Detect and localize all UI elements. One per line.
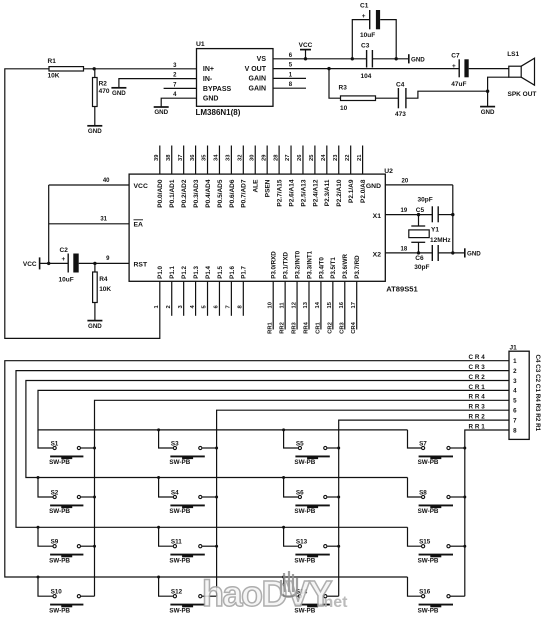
svg-text:32: 32 <box>238 155 244 161</box>
wire U1 pin 4 to ground <box>161 98 196 107</box>
svg-text:P3.4/T0: P3.4/T0 <box>318 257 325 279</box>
switch S9 <box>38 527 53 546</box>
wire U1 pin 2 to ground <box>119 79 197 88</box>
wire C6 to ground <box>438 252 465 254</box>
U2 top pin stub 27 <box>290 146 292 175</box>
junction row 4 drop col 2 <box>157 576 160 579</box>
svg-text:34: 34 <box>214 154 220 161</box>
junction C5 right <box>451 213 454 216</box>
svg-text:8: 8 <box>513 427 517 434</box>
junction column 4 row 3 <box>463 545 466 548</box>
svg-text:19: 19 <box>401 208 408 214</box>
svg-text:C6: C6 <box>415 255 424 262</box>
svg-text:P2.6/A14: P2.6/A14 <box>288 179 295 206</box>
svg-text:S1: S1 <box>51 440 59 447</box>
U2 top pin stub 22 <box>350 146 352 175</box>
U2 bottom pin stub 6 <box>218 281 220 316</box>
svg-text:SW-PB: SW-PB <box>49 508 70 515</box>
U2 top pin stub 26 <box>302 146 304 175</box>
U2 bottom pin stub 3 <box>183 281 185 316</box>
wire C4 to speaker ground <box>406 91 488 98</box>
svg-text:P1.4: P1.4 <box>205 266 212 279</box>
svg-text:RR1: RR1 <box>268 321 274 333</box>
switch S13 <box>284 527 298 546</box>
svg-text:LS1: LS1 <box>507 51 519 58</box>
svg-text:AT89S51: AT89S51 <box>386 285 418 294</box>
resistor R2 <box>94 69 96 78</box>
svg-text:S6: S6 <box>296 489 304 496</box>
svg-text:P0.6/AD6: P0.6/AD6 <box>229 179 236 208</box>
svg-text:CR2: CR2 <box>469 374 487 381</box>
svg-text:P2.2/A10: P2.2/A10 <box>336 179 343 206</box>
svg-text:C4 C3 C2 C1 R4 R3 R2 R1: C4 C3 C2 C1 R4 R3 R2 R1 <box>534 355 541 432</box>
wire R3 to C4 <box>376 97 399 99</box>
svg-text:S7: S7 <box>419 440 427 447</box>
U2 bottom pin stub 10 <box>272 281 274 329</box>
svg-text:4: 4 <box>513 388 517 395</box>
svg-text:GND: GND <box>481 109 495 116</box>
svg-text:11: 11 <box>279 302 285 309</box>
svg-text:S3: S3 <box>171 440 179 447</box>
switch S6 <box>284 478 298 498</box>
switch S8 <box>408 478 422 498</box>
junction row 2 drop col 2 <box>157 476 160 479</box>
svg-text:S12: S12 <box>171 589 183 596</box>
capacitor C4 plates <box>397 88 399 108</box>
junction row 3 drop col 3 <box>282 526 285 529</box>
svg-text:SW-PB: SW-PB <box>49 607 70 614</box>
crystal Y1 <box>418 215 420 226</box>
svg-text:17: 17 <box>351 302 357 308</box>
svg-text:CR1: CR1 <box>315 321 321 333</box>
U2 bottom pin stub 4 <box>195 281 197 316</box>
junction VCC on VS line <box>304 57 307 60</box>
svg-text:SW-PB: SW-PB <box>169 508 190 515</box>
svg-text:RR1: RR1 <box>469 423 487 430</box>
wire C7 to speaker <box>469 68 509 70</box>
svg-text:30pF: 30pF <box>414 264 429 271</box>
svg-text:U1: U1 <box>196 41 205 48</box>
svg-text:GND: GND <box>88 323 102 330</box>
svg-text:P2.3/A11: P2.3/A11 <box>324 179 331 206</box>
junction column 3 row 2 <box>337 496 340 499</box>
junction C1 left leg on VS line <box>351 57 354 60</box>
svg-text:16: 16 <box>339 301 345 308</box>
svg-text:R1: R1 <box>48 58 57 65</box>
U2 bottom pin stub 15 <box>332 281 334 329</box>
svg-text:P3.2/INT0: P3.2/INT0 <box>294 250 301 278</box>
svg-text:RR2: RR2 <box>469 414 487 421</box>
U2 bottom pin stub 17 <box>356 281 358 329</box>
svg-text:EA: EA <box>134 222 144 229</box>
wire C3 to ground <box>372 58 408 60</box>
svg-text:ALE: ALE <box>253 179 260 193</box>
svg-text:PSEN: PSEN <box>265 179 272 197</box>
svg-text:SW-PB: SW-PB <box>418 459 439 466</box>
svg-text:RR4: RR4 <box>469 394 487 401</box>
svg-text:CR3: CR3 <box>339 321 345 333</box>
svg-text:SW-PB: SW-PB <box>418 607 439 614</box>
svg-text:SW-PB: SW-PB <box>418 508 439 515</box>
svg-text:CR4: CR4 <box>351 321 357 333</box>
wire J1 pin 1 to keypad row 4 <box>5 361 509 577</box>
svg-text:RR4: RR4 <box>303 321 309 333</box>
svg-text:20: 20 <box>402 178 409 184</box>
U2 top pin stub 25 <box>314 146 316 175</box>
svg-text:X1: X1 <box>373 213 382 220</box>
svg-text:12: 12 <box>291 302 297 308</box>
svg-text:SW-PB: SW-PB <box>294 459 315 466</box>
junction column 1 row 2 <box>93 496 96 499</box>
svg-text:10: 10 <box>340 105 348 112</box>
svg-text:P0.4/AD4: P0.4/AD4 <box>205 179 212 208</box>
wire U2 pin 19 X1 <box>385 214 432 216</box>
svg-text:C1: C1 <box>360 3 369 10</box>
svg-text:SW-PB: SW-PB <box>169 557 190 564</box>
svg-text:31: 31 <box>100 216 107 222</box>
svg-text:GND: GND <box>154 109 168 116</box>
U2 top pin stub 36 <box>195 146 197 175</box>
U2 bottom pin stub 5 <box>207 281 209 316</box>
U2 bottom pin stub 8 <box>242 281 244 316</box>
svg-text:22: 22 <box>345 155 351 161</box>
switch S2 <box>38 478 53 498</box>
svg-text:6: 6 <box>513 408 517 415</box>
svg-text:P0.0/AD0: P0.0/AD0 <box>157 179 164 208</box>
wire U2 pin 31 EA <box>49 223 129 225</box>
U2 top pin stub 35 <box>207 146 209 175</box>
junction column 3 row 3 <box>337 545 340 548</box>
svg-text:P2.0/A8: P2.0/A8 <box>360 179 367 203</box>
svg-text:P3.0/RXD: P3.0/RXD <box>271 251 278 279</box>
svg-text:IN+: IN+ <box>203 66 214 73</box>
ground at U1 pin 2 <box>111 87 126 89</box>
svg-text:25: 25 <box>309 154 315 161</box>
U2 bottom pin stub 13 <box>308 281 310 329</box>
ground right of C3 <box>408 54 410 63</box>
microcontroller U2 AT89S51 box <box>129 174 385 281</box>
svg-text:U2: U2 <box>384 168 393 175</box>
svg-text:P1.3: P1.3 <box>193 266 200 279</box>
svg-text:C2: C2 <box>60 247 69 254</box>
U2 bottom pin stub 16 <box>344 281 346 329</box>
svg-text:P0.1/AD1: P0.1/AD1 <box>169 179 176 208</box>
svg-text:7: 7 <box>226 305 232 308</box>
svg-text:P1.6: P1.6 <box>229 266 236 279</box>
svg-text:P3.1/TXD: P3.1/TXD <box>283 251 290 278</box>
svg-text:10uF: 10uF <box>59 277 74 284</box>
svg-text:V OUT: V OUT <box>245 66 267 73</box>
switch S5 <box>284 430 298 448</box>
switch S12 <box>159 577 173 596</box>
svg-text:haoDVY: haoDVY <box>202 573 333 614</box>
svg-text:35: 35 <box>202 154 208 161</box>
junction X2/crystal <box>417 251 420 254</box>
svg-text:S11: S11 <box>171 539 182 546</box>
svg-text:R4: R4 <box>99 276 108 283</box>
svg-text:12MHz: 12MHz <box>430 237 451 244</box>
wire U1 pin 8 GAIN stub <box>273 87 306 89</box>
wire U2 pin 18 X2 <box>385 252 432 254</box>
U2 bottom pin stub 11 <box>284 281 286 329</box>
svg-text:VS: VS <box>257 56 267 63</box>
junction column 4 row 2 <box>463 496 466 499</box>
svg-text:S4: S4 <box>171 489 179 496</box>
svg-text:P3.5/T1: P3.5/T1 <box>330 257 337 279</box>
svg-text:10K: 10K <box>48 73 60 80</box>
wire U1 pin 7 BYPASS stub <box>164 87 197 89</box>
junction RST/R4 <box>93 262 96 265</box>
U2 top pin stub 23 <box>338 146 340 175</box>
junction column 2 row 3 <box>215 545 218 548</box>
resistor R1 <box>49 67 84 71</box>
svg-text:+: + <box>62 256 66 263</box>
junction C1 right leg <box>395 57 398 60</box>
svg-text:C4: C4 <box>396 82 405 89</box>
svg-text:P0.2/AD2: P0.2/AD2 <box>181 179 188 208</box>
svg-text:7: 7 <box>513 417 517 424</box>
switch S15 <box>408 527 422 546</box>
wire J1 pin 5 to keypad column 1 <box>95 400 510 596</box>
wire V OUT to R3 <box>329 69 341 99</box>
switch S14 <box>284 577 298 596</box>
svg-text:SW-PB: SW-PB <box>294 508 315 515</box>
svg-text:+: + <box>362 13 366 20</box>
svg-text:2: 2 <box>166 305 172 308</box>
U2 top pin stub 37 <box>183 146 185 175</box>
svg-text:SW-PB: SW-PB <box>294 557 315 564</box>
wire U1 pin 6 VS to C3 <box>273 58 367 60</box>
svg-text:28: 28 <box>273 154 279 161</box>
svg-text:P1.5: P1.5 <box>217 266 224 279</box>
wire R2 to ground <box>94 107 96 126</box>
svg-text:VCC: VCC <box>299 42 313 49</box>
svg-text:P0.5/AD5: P0.5/AD5 <box>217 179 224 208</box>
switch S16 <box>408 577 422 596</box>
wire speaker bottom to ground <box>488 77 509 106</box>
svg-text:P3.7/RD: P3.7/RD <box>354 255 361 279</box>
svg-text:IN-: IN- <box>203 76 213 83</box>
svg-text:VCC: VCC <box>23 261 37 268</box>
wire J1 pin 2 to keypad row 3 <box>16 371 509 528</box>
svg-text:470: 470 <box>99 88 110 95</box>
junction R3 tap on V OUT <box>327 67 330 70</box>
svg-text:P0.3/AD3: P0.3/AD3 <box>193 179 200 208</box>
U2 top pin stub 39 <box>159 146 161 175</box>
svg-text:29: 29 <box>261 154 267 161</box>
capacitor C1 plates <box>369 10 371 29</box>
svg-text:13: 13 <box>303 301 309 308</box>
junction row 4 drop col 3 <box>282 576 285 579</box>
svg-text:VCC: VCC <box>134 183 148 190</box>
U2 top pin stub 29 <box>266 146 268 175</box>
wire U1 pin 5 V OUT to C7 <box>273 68 459 70</box>
speaker LS1 <box>509 66 521 77</box>
svg-text:S13: S13 <box>296 539 308 546</box>
svg-text:10K: 10K <box>99 286 111 293</box>
switch S7 <box>408 430 422 448</box>
svg-text:P1.7: P1.7 <box>241 266 248 279</box>
U2 bottom pin stub 12 <box>296 281 298 329</box>
svg-text:C5: C5 <box>416 207 425 214</box>
wire R1 to U1 pin 3 <box>84 68 197 70</box>
ground below R4 <box>87 320 102 322</box>
svg-text:RST: RST <box>134 261 148 268</box>
svg-text:RR2: RR2 <box>280 322 286 334</box>
svg-text:1: 1 <box>513 358 517 365</box>
svg-text:LM386N1(8): LM386N1(8) <box>196 108 241 117</box>
switch S10 <box>38 577 53 596</box>
svg-text:47uF: 47uF <box>451 81 466 88</box>
svg-text:.net: .net <box>319 594 348 611</box>
svg-text:P2.1/A9: P2.1/A9 <box>348 179 355 203</box>
svg-text:P3.3/INT1: P3.3/INT1 <box>306 250 313 278</box>
svg-text:S15: S15 <box>419 539 431 546</box>
svg-text:15: 15 <box>327 301 333 308</box>
svg-text:BYPASS: BYPASS <box>203 86 232 93</box>
wire VCC rail vertical <box>48 185 50 263</box>
svg-text:37: 37 <box>178 155 184 161</box>
svg-text:473: 473 <box>395 111 406 118</box>
junction row 3 drop col 2 <box>157 526 160 529</box>
svg-text:104: 104 <box>361 73 372 80</box>
junction C6 right <box>451 251 454 254</box>
svg-text:24: 24 <box>321 154 327 161</box>
resistor R4 <box>94 263 96 272</box>
svg-text:GND: GND <box>88 128 102 135</box>
svg-text:2: 2 <box>513 368 517 375</box>
junction row 2 drop col 1 <box>37 476 40 479</box>
power symbol VCC left <box>39 257 41 269</box>
svg-text:36: 36 <box>190 154 196 161</box>
svg-text:SW-PB: SW-PB <box>418 557 439 564</box>
switch S11 <box>159 527 173 546</box>
op-amp U1 LM386 box <box>197 49 274 107</box>
svg-text:RR3: RR3 <box>292 321 298 333</box>
switch S4 <box>159 478 173 498</box>
U2 top pin stub 28 <box>278 146 280 175</box>
wire J1 pin 8 to keypad column 4 <box>465 430 509 596</box>
resistor R3 <box>341 96 376 101</box>
svg-text:RR3: RR3 <box>469 404 487 411</box>
U2 top pin stub 38 <box>171 146 173 175</box>
svg-text:40: 40 <box>103 178 110 184</box>
svg-text:10: 10 <box>267 302 273 308</box>
svg-text:39: 39 <box>154 154 160 161</box>
svg-text:C7: C7 <box>451 53 460 60</box>
junction column 2 row 1 <box>215 447 218 450</box>
svg-text:R2: R2 <box>99 81 108 88</box>
svg-text:GND: GND <box>112 90 126 97</box>
svg-text:SW-PB: SW-PB <box>169 459 190 466</box>
svg-text:P2.4/A12: P2.4/A12 <box>312 179 319 206</box>
U2 top pin stub 30 <box>254 146 256 175</box>
junction row 1 drop col 3 <box>282 428 285 431</box>
U2 top pin stub 21 <box>362 146 364 175</box>
svg-text:GND: GND <box>366 183 381 190</box>
wire C5 to GND vertical <box>438 214 453 216</box>
ground below speaker <box>480 106 495 108</box>
svg-text:5: 5 <box>513 398 517 405</box>
svg-text:18: 18 <box>401 247 408 253</box>
svg-text:GND: GND <box>411 56 425 63</box>
svg-text:27: 27 <box>285 155 291 161</box>
svg-text:30: 30 <box>249 155 255 161</box>
U2 top pin stub 32 <box>242 146 244 175</box>
svg-text:S9: S9 <box>51 539 59 546</box>
capacitor C5 plates <box>431 206 433 222</box>
svg-text:S2: S2 <box>51 489 59 496</box>
svg-text:P3.6/WR: P3.6/WR <box>342 254 349 279</box>
capacitor C7 plates <box>458 59 460 77</box>
junction column 3 row 1 <box>337 447 340 450</box>
capacitor C3 plates <box>366 50 368 68</box>
svg-text:SW-PB: SW-PB <box>49 557 70 564</box>
U2 top pin stub 24 <box>326 146 328 175</box>
junction node R1/R2/IN+ <box>93 67 96 70</box>
svg-text:P1.2: P1.2 <box>181 266 188 279</box>
wire J1 pin 3 to keypad row 2 <box>26 381 509 478</box>
svg-text:10uF: 10uF <box>360 32 375 39</box>
switch S1 <box>38 430 53 448</box>
svg-text:23: 23 <box>333 154 339 161</box>
svg-text:GND: GND <box>467 250 481 257</box>
wire GND vertical right of U2 <box>452 185 454 253</box>
svg-text:CR2: CR2 <box>327 322 333 334</box>
capacitor C1 legs <box>352 20 369 59</box>
wire U2 pin 20 GND <box>385 184 453 186</box>
svg-text:GAIN: GAIN <box>249 76 267 83</box>
svg-text:S10: S10 <box>51 589 63 596</box>
wire net P1.0 from U2 pin1 to R1 left (long left vertical) <box>5 69 160 339</box>
ground right of crystal <box>464 248 466 257</box>
junction row 1 drop col 2 <box>157 428 160 431</box>
wire C2 to U2 pin 9 RST <box>79 262 129 264</box>
svg-text:3: 3 <box>513 378 517 385</box>
U2 bottom pin stub 7 <box>230 281 232 316</box>
ground at U1 pin 4 <box>154 106 169 108</box>
junction row 2 drop col 3 <box>282 476 285 479</box>
svg-text:14: 14 <box>315 301 321 308</box>
svg-text:S16: S16 <box>419 589 431 596</box>
svg-text:S5: S5 <box>296 440 304 447</box>
switch S3 <box>159 430 173 448</box>
svg-text:Y1: Y1 <box>431 226 439 233</box>
svg-text:38: 38 <box>166 154 172 161</box>
junction row 4 drop col 1 <box>37 576 40 579</box>
wire J1 pin 4 to keypad row 1 <box>38 390 509 430</box>
junction column 4 row 1 <box>463 447 466 450</box>
svg-text:33: 33 <box>226 154 232 161</box>
junction speaker ground <box>486 90 489 93</box>
connector J1 box <box>509 351 529 439</box>
svg-text:P0.7/AD7: P0.7/AD7 <box>241 179 248 208</box>
svg-text:+: + <box>452 63 456 70</box>
svg-text:21: 21 <box>357 154 363 161</box>
U2 top pin stub 34 <box>218 146 220 175</box>
U2 bottom pin stub 2 <box>171 281 173 316</box>
wire R4 to ground <box>94 303 96 321</box>
junction row 3 drop col 1 <box>37 526 40 529</box>
svg-text:J1: J1 <box>510 344 518 351</box>
wire U1 pin 1 GAIN stub <box>273 77 306 79</box>
wire J1 pin 7 to keypad column 3 <box>339 420 509 596</box>
U2 bottom pin stub 14 <box>320 281 322 329</box>
svg-text:P2.5/A13: P2.5/A13 <box>300 179 307 206</box>
svg-text:26: 26 <box>297 154 303 161</box>
wire U2 pin 40 VCC <box>49 184 129 186</box>
ground below R2 <box>87 125 102 127</box>
